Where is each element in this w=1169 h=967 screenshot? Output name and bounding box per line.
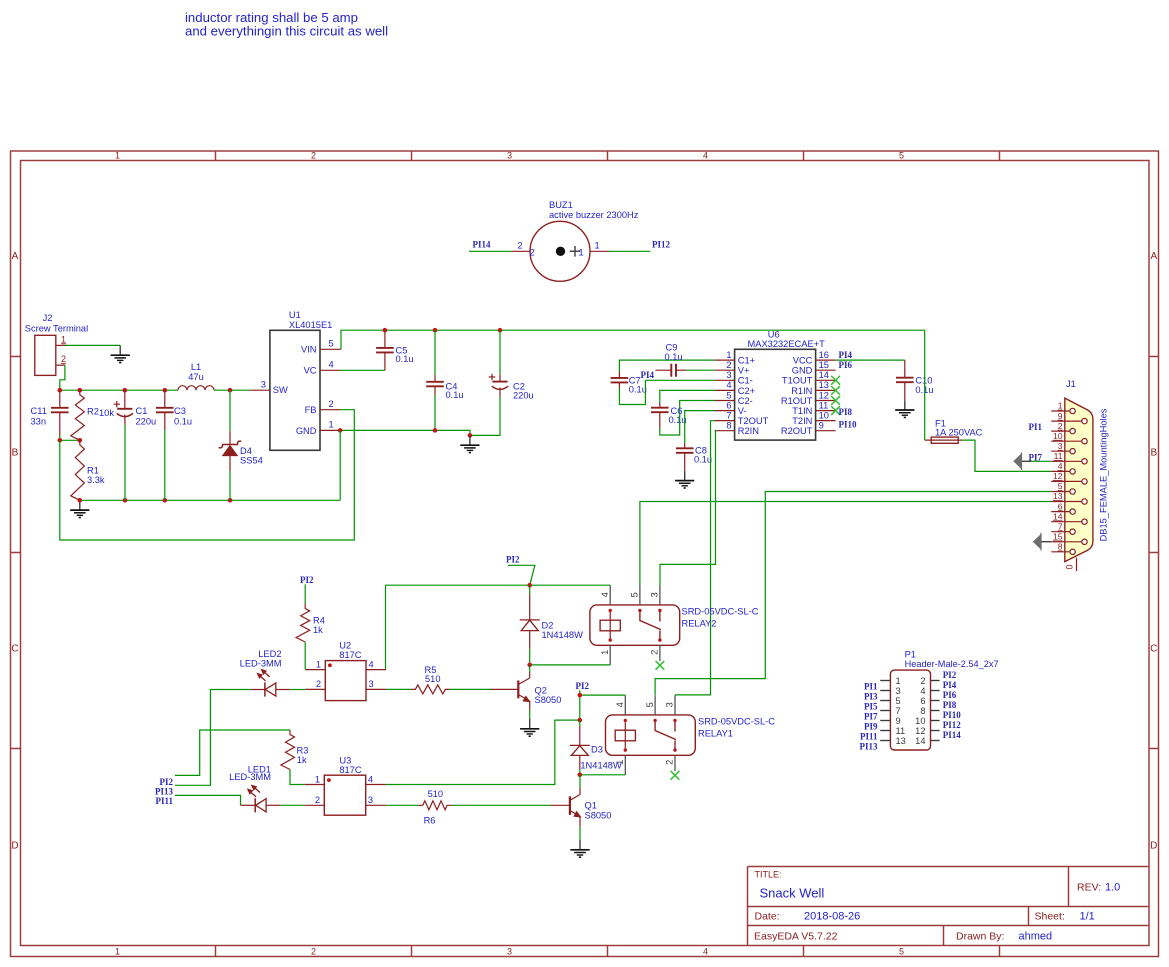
svg-text:PI1: PI1: [1029, 422, 1043, 432]
wire RELAY1 pin5 to J1 pin5: [655, 492, 1051, 696]
wire F1 to J1 pin4: [962, 440, 1051, 471]
P1 pin 10: [915, 716, 939, 726]
P1 pin 1: [880, 676, 900, 686]
svg-text:4: 4: [615, 702, 625, 707]
P1 pin 9: [880, 716, 900, 726]
svg-text:T1OUT: T1OUT: [782, 376, 813, 386]
wire R2 bottom node: [60, 439, 80, 441]
resistor R2: [71, 390, 115, 440]
svg-text:PI4: PI4: [943, 680, 957, 690]
svg-text:1: 1: [115, 151, 120, 161]
J1 pin 10: [1051, 431, 1087, 444]
svg-text:510: 510: [425, 674, 441, 684]
svg-text:5: 5: [1058, 481, 1063, 491]
LED2 LED-3MM: [240, 649, 291, 697]
svg-text:C1-: C1-: [738, 376, 753, 386]
svg-text:PI13: PI13: [860, 742, 879, 752]
J1 pin 4: [1051, 461, 1075, 474]
svg-text:R2OUT: R2OUT: [781, 426, 813, 436]
svg-text:A: A: [1150, 251, 1157, 262]
svg-text:1/1: 1/1: [1080, 911, 1095, 923]
svg-text:1k: 1k: [313, 625, 323, 635]
wire U2 pin4 to relay2 coil: [386, 585, 611, 669]
wire J2 pin2 to input bus: [60, 365, 65, 390]
svg-text:PI14: PI14: [943, 730, 962, 740]
svg-text:0: 0: [1065, 564, 1075, 569]
ground at C10: [904, 400, 906, 410]
svg-text:SRD-05VDC-SL-C: SRD-05VDC-SL-C: [682, 606, 759, 616]
wire J2 pin1 to ground: [65, 344, 120, 346]
svg-text:SS54: SS54: [240, 455, 263, 465]
J1 pin 7: [1051, 521, 1075, 534]
wire C7 bottom to pin3 line: [619, 380, 645, 404]
svg-text:EasyEDA V5.7.22: EasyEDA V5.7.22: [754, 930, 838, 942]
svg-text:220u: 220u: [513, 391, 534, 401]
J1 pin 6: [1051, 501, 1075, 514]
J2 pin 2: [56, 354, 66, 365]
wire PI2 to R3: [175, 730, 290, 775]
svg-text:PI10: PI10: [943, 710, 962, 720]
svg-text:PI10: PI10: [839, 419, 858, 429]
svg-text:PI6: PI6: [839, 360, 853, 370]
capacitor C6: [651, 403, 687, 428]
wire R4 to U2 pin1: [304, 642, 306, 670]
J2 pin 1: [56, 334, 66, 345]
svg-text:DB15_FEMALE_MountingHoles: DB15_FEMALE_MountingHoles: [1098, 408, 1108, 541]
IC U6 MAX3232ECAE+T: [735, 330, 825, 440]
P1 pin 13: [880, 736, 906, 746]
no-connect mark: [671, 771, 680, 780]
svg-text:13: 13: [896, 736, 906, 746]
U6 pin 12 R1OUT: [781, 390, 836, 406]
J1 pin 2: [1051, 421, 1075, 434]
wire U6 pin3 line: [645, 379, 714, 381]
svg-text:PI6: PI6: [943, 690, 957, 700]
svg-text:5: 5: [899, 151, 904, 161]
U6 pin 2 V+: [715, 360, 750, 376]
svg-text:PI2: PI2: [943, 670, 957, 680]
connector P1 Header-Male-2.54_2x7: [890, 650, 998, 750]
svg-text:C1: C1: [136, 406, 148, 416]
svg-text:PI7: PI7: [1029, 452, 1043, 462]
svg-text:1: 1: [579, 247, 584, 257]
svg-text:12: 12: [1053, 471, 1063, 481]
svg-text:SRD-05VDC-SL-C: SRD-05VDC-SL-C: [698, 716, 775, 726]
wire C6 bottom to pin5: [660, 401, 715, 436]
svg-text:3: 3: [368, 795, 373, 805]
svg-text:1A 250VAC: 1A 250VAC: [935, 428, 983, 438]
svg-text:PI11: PI11: [860, 732, 878, 742]
U3 pin 4: [366, 774, 386, 784]
wire LED2 to U2 pin2: [290, 689, 305, 691]
svg-text:1: 1: [61, 334, 66, 344]
svg-text:6: 6: [1058, 501, 1063, 511]
U2 pin 4: [366, 659, 386, 669]
svg-text:C2+: C2+: [738, 386, 755, 396]
svg-text:2: 2: [530, 247, 535, 257]
svg-text:10: 10: [1053, 431, 1063, 441]
svg-text:6: 6: [920, 696, 925, 706]
RELAY2 pin 4: [600, 585, 610, 605]
U1 pin 4 VC: [320, 360, 340, 371]
resistor R5 510: [411, 665, 450, 694]
capacitor C2: [470, 330, 534, 435]
svg-text:6: 6: [726, 400, 731, 410]
svg-text:VC: VC: [304, 366, 317, 376]
svg-text:2: 2: [61, 354, 66, 364]
svg-text:8: 8: [1058, 542, 1063, 552]
svg-text:1: 1: [726, 350, 731, 360]
svg-text:0.1u: 0.1u: [669, 415, 687, 425]
svg-text:1: 1: [316, 659, 321, 669]
no-connect mark: [831, 406, 840, 415]
wire U1 GND net: [340, 430, 470, 435]
svg-text:817C: 817C: [339, 650, 362, 660]
svg-text:R3: R3: [297, 745, 309, 755]
diode D4 SS54: [219, 390, 262, 500]
svg-text:3: 3: [507, 151, 512, 161]
U6 pin 10 T2IN: [792, 410, 835, 426]
svg-text:BUZ1: BUZ1: [549, 200, 573, 210]
BUZ1 pin 2: [511, 241, 534, 258]
wire U6 pin7 T2OUT to RELAY1 pin3: [675, 421, 715, 695]
capacitor C11: [31, 390, 69, 440]
svg-text:5: 5: [630, 592, 640, 597]
svg-text:Sheet:: Sheet:: [1035, 911, 1065, 923]
diode D3 1N4148W: [570, 720, 622, 775]
no-connect mark: [656, 661, 665, 670]
svg-text:2: 2: [665, 760, 675, 765]
svg-text:11: 11: [819, 400, 829, 410]
U6 pin 4 C2+: [715, 380, 756, 396]
U6 pin 15 GND: [792, 360, 836, 376]
svg-text:C3: C3: [174, 406, 186, 416]
svg-text:8: 8: [726, 421, 731, 431]
svg-text:Drawn By:: Drawn By:: [956, 930, 1004, 942]
ground at Q2 emitter: [529, 719, 531, 729]
svg-text:D: D: [1150, 841, 1157, 852]
svg-text:C: C: [1150, 644, 1157, 655]
svg-text:0.1u: 0.1u: [174, 417, 192, 427]
svg-text:2: 2: [726, 360, 731, 370]
svg-text:Date:: Date:: [755, 911, 780, 923]
svg-text:11: 11: [896, 726, 906, 736]
svg-text:LED2: LED2: [258, 649, 281, 659]
svg-text:TITLE:: TITLE:: [755, 870, 782, 880]
svg-text:C: C: [11, 644, 18, 655]
svg-text:2018-08-26: 2018-08-26: [804, 911, 860, 923]
svg-text:16: 16: [819, 350, 829, 360]
J1 pin 9: [1051, 411, 1087, 424]
wire R3 to U3 pin1: [290, 770, 304, 785]
svg-text:A: A: [12, 251, 19, 262]
wire PI14 to BUZ1: [469, 250, 511, 252]
svg-text:1: 1: [896, 676, 901, 686]
wire VIN to top bus: [341, 330, 925, 349]
svg-text:D3: D3: [591, 744, 603, 754]
wire LED2 anode to PI13: [175, 690, 251, 786]
transistor Q2 S8050: [518, 665, 561, 719]
svg-text:T2IN: T2IN: [792, 416, 812, 426]
net label PI2 at R4: [300, 575, 314, 604]
BUZ1 pin 1: [579, 241, 610, 258]
svg-text:0.1u: 0.1u: [446, 390, 464, 400]
wire U6 pin4 to C6: [660, 390, 715, 403]
resistor R1: [71, 440, 105, 500]
title block: [748, 867, 1150, 946]
capacitor C5: [376, 330, 414, 370]
svg-text:5: 5: [329, 339, 334, 349]
svg-text:1: 1: [329, 420, 334, 430]
J1 pin 13: [1051, 491, 1087, 504]
svg-text:PI12: PI12: [652, 240, 671, 250]
net label PI2 at D2: [506, 555, 535, 586]
svg-text:C2-: C2-: [738, 396, 753, 406]
wire U3 pin3 to R6: [386, 804, 419, 806]
svg-text:D4: D4: [240, 446, 252, 456]
wire VC line: [340, 369, 385, 371]
svg-text:15: 15: [819, 360, 829, 370]
svg-text:VCC: VCC: [793, 356, 813, 366]
svg-text:PI2: PI2: [300, 575, 314, 585]
svg-text:PI8: PI8: [839, 407, 853, 417]
svg-text:7: 7: [896, 706, 901, 716]
optocoupler U2 817C: [325, 641, 366, 701]
svg-text:5: 5: [726, 390, 731, 400]
svg-text:S8050: S8050: [585, 810, 612, 820]
svg-text:0.1u: 0.1u: [629, 385, 647, 395]
RELAY1 pin 5: [645, 695, 655, 715]
svg-text:RELAY2: RELAY2: [682, 619, 717, 629]
svg-text:PI12: PI12: [943, 720, 962, 730]
svg-text:2: 2: [316, 679, 321, 689]
U6 pin 9 R2OUT: [781, 421, 836, 437]
svg-text:LED-3MM: LED-3MM: [229, 772, 271, 782]
wire R5 to Q2 base: [450, 688, 491, 690]
U6 pin 8 R2IN: [715, 421, 759, 437]
svg-text:Header-Male-2.54_2x7: Header-Male-2.54_2x7: [905, 659, 999, 669]
voltage probe flag PI7 at J1 pin 11: [1014, 452, 1051, 470]
svg-text:3: 3: [896, 686, 901, 696]
svg-text:2: 2: [1058, 421, 1063, 431]
svg-text:ahmed: ahmed: [1019, 930, 1053, 942]
svg-text:4: 4: [703, 151, 708, 161]
svg-text:3: 3: [726, 370, 731, 380]
svg-text:PI11: PI11: [156, 796, 174, 806]
svg-text:33n: 33n: [31, 417, 47, 427]
svg-text:GND: GND: [296, 426, 317, 436]
svg-text:817C: 817C: [339, 765, 362, 775]
J1 pin 5: [1051, 481, 1075, 494]
P1 pin 12: [915, 726, 939, 736]
svg-text:V+: V+: [738, 366, 750, 376]
svg-text:47u: 47u: [188, 372, 204, 382]
svg-text:5: 5: [896, 696, 901, 706]
svg-text:Snack Well: Snack Well: [760, 886, 825, 901]
RELAY1 pin 1: [615, 755, 625, 775]
U6 pin 1 C1+: [715, 350, 756, 366]
ground at J2 pin 1: [119, 345, 121, 355]
U6 pin 5 C2-: [715, 390, 753, 406]
wire LED1 to U3 pin2: [280, 804, 304, 806]
svg-text:PI9: PI9: [864, 722, 878, 732]
svg-text:XL4015E1: XL4015E1: [289, 320, 332, 330]
P1 pin 11: [880, 726, 905, 736]
U6 pin 16 VCC: [793, 350, 836, 366]
voltage probe flag at J1 pin 15: [1034, 533, 1052, 551]
wire U3 pin4 to relay1: [386, 720, 580, 784]
svg-text:9: 9: [896, 716, 901, 726]
fuse F1: [925, 418, 983, 443]
capacitor C1: [114, 390, 157, 500]
wire input bus: [60, 389, 178, 391]
wire U2 pin3 to R5: [386, 688, 411, 690]
svg-text:R2IN: R2IN: [738, 426, 759, 436]
junction input bus: [58, 388, 63, 393]
wire U1 GND to bottom bus: [339, 430, 341, 500]
capacitor C7: [611, 372, 647, 395]
wire FB feedback net: [60, 410, 355, 540]
svg-text:L1: L1: [191, 362, 201, 372]
P1 pin 6: [920, 696, 939, 706]
svg-text:U6: U6: [768, 330, 780, 340]
P1 pin 8: [920, 706, 939, 716]
inductor L1: [178, 362, 214, 390]
optocoupler U3 817C: [324, 756, 365, 816]
svg-text:10k: 10k: [99, 408, 114, 418]
J1 mounting pin 0: [1065, 558, 1077, 572]
U6 pin 14 T1OUT: [782, 370, 836, 386]
RELAY2 pin 1: [600, 645, 610, 665]
svg-text:4: 4: [329, 360, 334, 370]
RELAY2 pin 3: [650, 585, 660, 605]
svg-text:1N4148W: 1N4148W: [542, 630, 584, 640]
wire D2 bottom to relay2 pin1: [530, 664, 611, 666]
svg-text:3: 3: [1058, 441, 1063, 451]
svg-text:SW: SW: [273, 385, 288, 395]
svg-text:9: 9: [1058, 411, 1063, 421]
svg-text:1N4148W: 1N4148W: [580, 760, 622, 770]
svg-text:3: 3: [369, 679, 374, 689]
svg-text:12: 12: [915, 726, 925, 736]
P1 pin 3: [880, 686, 900, 696]
svg-text:B: B: [1150, 448, 1157, 459]
svg-text:GND: GND: [792, 366, 813, 376]
svg-text:10: 10: [819, 410, 829, 420]
svg-text:C11: C11: [31, 406, 47, 416]
resistor R6 510: [418, 789, 451, 825]
svg-text:PI5: PI5: [864, 702, 878, 712]
svg-text:V-: V-: [738, 406, 747, 416]
ground at R1: [79, 500, 81, 510]
wire relay1 coil node: [580, 694, 626, 696]
U2 pin 2: [305, 679, 325, 689]
U6 pin 13 R1IN: [791, 380, 835, 396]
svg-text:14: 14: [1053, 511, 1063, 521]
relay RELAY2 SRD-05VDC-SL-C: [590, 605, 759, 645]
svg-text:8: 8: [920, 706, 925, 716]
svg-text:10: 10: [915, 716, 925, 726]
svg-text:14: 14: [819, 370, 829, 380]
svg-text:RELAY1: RELAY1: [698, 729, 733, 739]
svg-text:5: 5: [645, 702, 655, 707]
svg-text:R6: R6: [424, 815, 436, 825]
relay RELAY1 SRD-05VDC-SL-C: [606, 715, 776, 755]
net label PI2 at relay1: [576, 681, 590, 695]
wire R6 to Q1 base: [452, 804, 551, 806]
wire RELAY2 pin5 to J1 pin13: [640, 502, 1051, 586]
svg-text:1: 1: [315, 774, 320, 784]
J1 pin 15: [1051, 532, 1087, 545]
capacitor C10: [896, 360, 934, 400]
svg-text:2: 2: [311, 151, 316, 161]
svg-text:510: 510: [428, 789, 444, 799]
svg-text:PI2: PI2: [506, 555, 520, 565]
svg-text:4: 4: [368, 774, 373, 784]
wire U6 pin16 VCC to C10: [836, 359, 905, 361]
resistor R4 1k: [296, 604, 325, 642]
svg-text:R1OUT: R1OUT: [781, 396, 813, 406]
svg-text:3.3k: 3.3k: [87, 475, 105, 485]
svg-text:4: 4: [726, 380, 731, 390]
svg-text:0.1u: 0.1u: [694, 454, 712, 464]
svg-text:12: 12: [819, 390, 829, 400]
wire BUZ1 to PI12: [609, 250, 651, 252]
svg-text:4: 4: [703, 946, 708, 956]
U3 pin 2: [304, 795, 324, 805]
svg-text:B: B: [12, 448, 19, 459]
svg-text:2: 2: [920, 676, 925, 686]
RELAY1 pin 2: [665, 755, 675, 771]
resistor R3 1k: [281, 730, 308, 770]
svg-text:PI2: PI2: [576, 681, 590, 691]
RELAY2 pin 5: [630, 585, 640, 605]
svg-text:4: 4: [369, 659, 374, 669]
svg-text:J2: J2: [43, 313, 53, 323]
svg-text:4: 4: [600, 592, 610, 597]
U3 pin 1: [304, 774, 324, 784]
svg-text:13: 13: [819, 380, 829, 390]
svg-text:3: 3: [650, 592, 660, 597]
svg-text:PI4: PI4: [641, 370, 655, 380]
J1 pin 11: [1051, 451, 1087, 464]
RELAY1 pin 4: [615, 695, 625, 715]
svg-text:7: 7: [1058, 521, 1063, 531]
svg-text:PI14: PI14: [473, 240, 492, 250]
svg-text:0.1u: 0.1u: [664, 352, 682, 362]
svg-text:PI4: PI4: [839, 350, 853, 360]
svg-text:C1+: C1+: [738, 356, 755, 366]
svg-text:2: 2: [650, 650, 660, 655]
svg-text:220u: 220u: [136, 417, 157, 427]
svg-text:1k: 1k: [297, 755, 307, 765]
no-connect mark: [831, 386, 840, 395]
U1 pin 3 SW: [250, 379, 270, 390]
IC U1 XL4015E1: [270, 310, 332, 450]
LED1 LED-3MM: [229, 764, 280, 812]
J1 pin 8: [1051, 542, 1075, 555]
svg-text:PI2: PI2: [160, 777, 174, 787]
P1 pin 4: [920, 686, 939, 696]
P1 pin 2: [920, 676, 939, 686]
U6 pin 11 T1IN: [792, 400, 835, 416]
svg-text:REV:: REV:: [1077, 882, 1101, 894]
note text: [185, 10, 388, 38]
svg-text:D: D: [11, 841, 18, 852]
svg-text:2: 2: [518, 241, 523, 251]
J1 pin 1: [1051, 401, 1075, 414]
capacitor C4: [426, 330, 463, 430]
